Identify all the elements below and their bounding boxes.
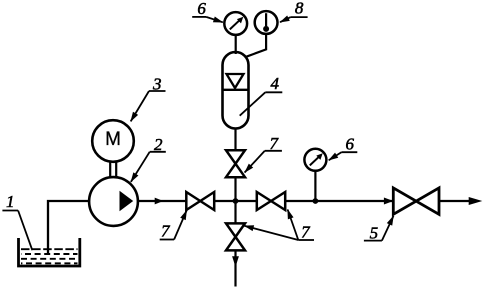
svg-text:6: 6 [197, 0, 206, 18]
svg-text:6: 6 [345, 134, 354, 153]
svg-text:7: 7 [161, 221, 171, 240]
svg-text:M: M [105, 129, 121, 150]
svg-text:4: 4 [271, 74, 280, 93]
svg-text:7: 7 [301, 223, 311, 242]
svg-text:1: 1 [6, 192, 15, 211]
svg-text:5: 5 [370, 223, 379, 242]
svg-text:8: 8 [295, 0, 304, 17]
